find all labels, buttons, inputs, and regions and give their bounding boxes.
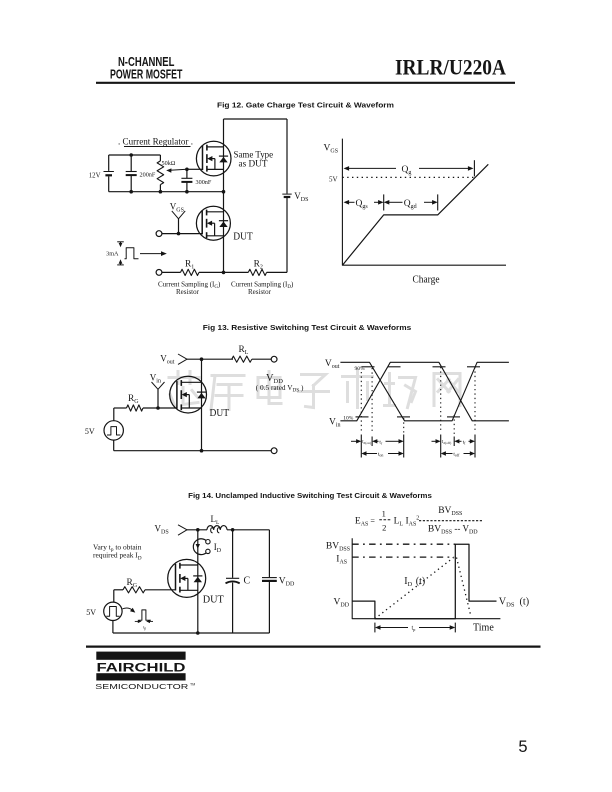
svg-text:IRLR/U220A: IRLR/U220A [395,54,507,79]
svg-text:ton: ton [378,451,384,457]
svg-text:Resistor: Resistor [248,288,272,296]
svg-text:Fig 12. Gate Charge Test Circ: Fig 12. Gate Charge Test Circuit & Wavef… [217,101,394,110]
svg-text:50kΩ: 50kΩ [162,160,176,167]
svg-text:5: 5 [518,738,527,756]
svg-text:5V: 5V [85,427,95,436]
svg-text:(t): (t) [416,576,425,587]
svg-text:Time: Time [473,623,494,634]
svg-text:Resistor: Resistor [176,288,200,296]
svg-text:Fig 13. Resistive Switching T: Fig 13. Resistive Switching Test Circuit… [203,323,412,332]
svg-text:DUT: DUT [233,231,253,242]
svg-text:FAIRCHILD: FAIRCHILD [97,660,187,674]
svg-text:toff: toff [453,451,460,457]
svg-text:TM: TM [190,683,195,687]
svg-text:Charge: Charge [413,274,441,285]
svg-text:200nF: 200nF [140,172,156,179]
svg-text:300nF: 300nF [196,179,212,186]
svg-text:Fig 14. Unclamped Inductive S: Fig 14. Unclamped Inductive Switching Te… [188,491,432,500]
svg-text:LL IAS2: LL IAS2 [394,515,420,527]
svg-text:12V: 12V [89,172,101,179]
svg-text:DUT: DUT [203,595,224,606]
svg-text:SEMICONDUCTOR: SEMICONDUCTOR [95,682,188,691]
svg-text:(t): (t) [520,597,530,608]
svg-text:3mA: 3mA [106,251,119,258]
svg-text:td(off): td(off) [442,440,452,445]
svg-text:DUT: DUT [210,408,230,419]
svg-text:C: C [244,576,251,587]
svg-text:10%: 10% [343,415,354,421]
svg-text:as DUT: as DUT [239,159,268,170]
svg-text:5V: 5V [86,608,96,617]
svg-text:POWER MOSFET: POWER MOSFET [110,67,183,82]
svg-text:5V: 5V [329,175,338,183]
svg-text:2: 2 [382,523,386,533]
svg-text:. Current Regulator .: . Current Regulator . [118,137,193,147]
svg-text:1: 1 [382,509,386,519]
svg-text:td(on): td(on) [362,440,372,445]
